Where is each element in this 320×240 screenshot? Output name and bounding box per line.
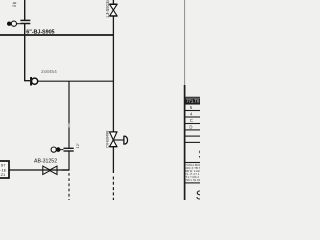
wire: branch vertical V2 upper segment xyxy=(24,0,26,20)
frame border line (right margin) xyxy=(184,0,186,200)
wire: V3 below blind to elbow at H4 xyxy=(62,151,69,170)
off-page connector box xyxy=(0,161,9,178)
valve AB-31252 (gate valve bowtie) xyxy=(43,166,51,174)
svg-text:LJ-S9134: LJ-S9134 xyxy=(105,0,110,18)
svg-text:Z1: Z1 xyxy=(1,172,6,177)
wire: instrument line H2 xyxy=(31,80,114,82)
svg-text:7W.1 7E 81: 7W.1 7E 81 xyxy=(185,178,200,182)
spectacle blind FB2 bars xyxy=(64,147,74,149)
control valve actuator (D shape) xyxy=(123,136,125,145)
svg-text:C: C xyxy=(190,118,193,123)
wire: main vertical pipe V1 (solid) xyxy=(112,0,114,173)
wire: branch vertical V2 lower segment + elbow to H2 xyxy=(25,24,30,81)
wire: valve line H4 xyxy=(9,169,69,171)
svg-text:AB-31252: AB-31252 xyxy=(34,159,57,165)
svg-text:S: S xyxy=(198,148,200,162)
wire: branch vertical V3 from H2 down xyxy=(68,81,70,148)
title block left border (dark over frame) xyxy=(184,85,186,200)
control valve CV-B9498 (bowtie) xyxy=(109,131,117,133)
svg-text:2x8454: 2x8454 xyxy=(41,69,57,75)
svg-text:6"-BJ-S905: 6"-BJ-S905 xyxy=(26,30,54,36)
blind indicator circles (open + filled) xyxy=(51,147,56,152)
wire: connector to blind xyxy=(60,149,64,151)
wire: dashed continuation V4 xyxy=(68,173,70,200)
revision table header (inverse video) xyxy=(185,98,200,103)
svg-text:S: S xyxy=(196,189,200,201)
valve LJ-S9134 (vertical bowtie, top) xyxy=(109,3,117,5)
wire: header pipe H1 xyxy=(0,34,114,36)
svg-text:771.T0: 771.T0 xyxy=(186,99,200,104)
wire: main vertical pipe V1 dashed continuation xyxy=(112,177,114,201)
svg-text:CV-B9498: CV-B9498 xyxy=(105,131,109,148)
svg-text:12’: 12’ xyxy=(75,143,80,148)
wire: connector to blind xyxy=(17,23,21,25)
control valve actuator stem xyxy=(113,139,124,141)
notes text block xyxy=(185,163,200,182)
title block row lines xyxy=(185,97,200,183)
tiny note Tp at top left xyxy=(13,3,17,9)
blind indicator circles (filled + open) xyxy=(7,22,11,26)
spectacle blind FB1 bars xyxy=(20,19,30,21)
line-class break mark on V3 xyxy=(68,123,70,127)
svg-text:D: D xyxy=(189,125,192,130)
inline instrument (bar + circle) xyxy=(30,77,32,86)
